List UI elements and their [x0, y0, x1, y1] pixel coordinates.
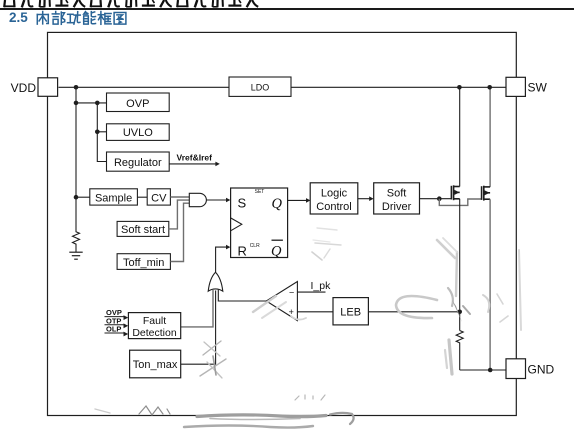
wire to GND pin [460, 369, 506, 371]
svg-text:−: − [289, 288, 294, 298]
svg-text:Fault: Fault [143, 315, 166, 327]
OR gate U3 [208, 272, 223, 291]
block Fault Detection [128, 313, 180, 339]
clipped page title text (glyph bottoms) [4, 0, 258, 7]
wire VDD bus vertical [75, 87, 77, 197]
svg-text:Soft start: Soft start [121, 224, 165, 236]
wire Logic Control to Soft Driver [358, 198, 370, 200]
wire Sample to CV [137, 196, 147, 198]
svg-text:LDO: LDO [251, 83, 270, 93]
transistor Q2 [482, 186, 491, 201]
svg-text:Q: Q [272, 196, 283, 212]
ground [69, 252, 82, 259]
block Soft Driver [374, 183, 420, 214]
transistor Q1 [451, 185, 459, 200]
block Ton_max [130, 350, 181, 378]
svg-text:Soft: Soft [387, 187, 407, 199]
wire LEB to comparator [297, 311, 333, 313]
resistor R1 (VDD bus) [73, 197, 80, 252]
svg-text:Q: Q [271, 244, 282, 260]
svg-text:Logic: Logic [321, 187, 348, 199]
wire Fault Detection to OR [181, 290, 213, 327]
wire I_pk stub [297, 291, 325, 293]
block Soft start [117, 221, 169, 236]
svg-text:CLR: CLR [250, 243, 260, 249]
svg-text:CV: CV [151, 192, 167, 204]
pin SW [506, 77, 525, 96]
clock triangle on latch [231, 218, 242, 231]
block Toff_min [117, 254, 170, 270]
svg-text:Vref&Iref: Vref&Iref [177, 153, 213, 163]
block UVLO [107, 124, 170, 141]
svg-text:OVP: OVP [126, 98, 149, 110]
pin VDD [38, 78, 58, 97]
node junction sub-bus UVLO [95, 130, 100, 135]
outer block boundary [48, 32, 517, 415]
wire Ton_max to OR [181, 291, 216, 365]
block Sample [90, 189, 138, 205]
wire Vref&Iref arrow [169, 163, 216, 165]
wire LDO to SW [291, 86, 506, 88]
svg-text:VDD: VDD [11, 81, 37, 95]
section heading glyphs 内部功能框图 [37, 12, 126, 25]
block CV [147, 189, 170, 205]
svg-text:R: R [238, 243, 247, 258]
block LEB [333, 298, 368, 325]
node gate drive junction [437, 196, 442, 201]
comparator U4 [266, 282, 297, 321]
section heading 2.5 [9, 10, 28, 25]
pin GND [506, 359, 526, 379]
wire source M1 down [459, 199, 461, 312]
node junction M2/GND [488, 368, 493, 373]
svg-text:Sample: Sample [95, 192, 132, 204]
block Regulator [107, 152, 170, 171]
svg-text:Toff_min: Toff_min [123, 257, 164, 269]
node junction bus/OVP [74, 101, 79, 106]
node junction VDD/M1 [457, 85, 462, 90]
block OVP [107, 93, 170, 112]
node junction on VDD line [74, 85, 79, 90]
node junction bus/Sample [74, 195, 79, 200]
block Logic Control [310, 183, 358, 214]
wire comparator out to OR [218, 290, 266, 301]
wire VDD to LDO [59, 86, 230, 88]
svg-text:Detection: Detection [132, 327, 177, 339]
wire bus to Sample [76, 196, 90, 198]
svg-text:S: S [238, 196, 247, 211]
wire source M2 down [489, 199, 491, 370]
wire drain M1 from VDD line [459, 87, 461, 186]
wire gate drive to Q2 [439, 199, 481, 206]
wire sub-bus vertical to Regulator [97, 103, 106, 162]
wire R input from OR gate [216, 247, 227, 272]
wire Q to Logic Control [288, 199, 307, 201]
wire bus to OVP [76, 102, 107, 104]
wire sub-bus to UVLO [97, 131, 106, 133]
block LDO [229, 77, 291, 96]
svg-text:LEB: LEB [340, 307, 361, 319]
node junction sub-bus top [95, 101, 100, 106]
wire Soft start to AND gate [169, 200, 190, 229]
wire LEB to sense node [368, 311, 459, 313]
node junction VDD/M2 [487, 85, 492, 90]
SR latch U2 [231, 188, 288, 258]
svg-text:Regulator: Regulator [114, 157, 162, 169]
wire Toff_min to AND gate [170, 203, 189, 261]
AND gate U1 [189, 193, 206, 206]
svg-text:SW: SW [528, 81, 548, 95]
wire drain M2 from VDD line [489, 87, 491, 187]
node sense junction [457, 310, 462, 315]
svg-text:GND: GND [528, 363, 555, 377]
svg-text:Driver: Driver [382, 201, 412, 213]
svg-text:OLP: OLP [106, 325, 121, 334]
wire AND output to S [207, 199, 227, 201]
svg-text:Control: Control [316, 201, 351, 213]
svg-text:Ton_max: Ton_max [133, 359, 178, 371]
wire CV to AND gate [170, 196, 189, 198]
horizontal rule [0, 8, 574, 10]
svg-text:UVLO: UVLO [123, 127, 153, 139]
svg-text:I_pk: I_pk [311, 280, 332, 292]
resistor R2 (current sense) [456, 331, 463, 371]
wire Soft Driver to gates [420, 198, 452, 200]
svg-text:SET: SET [255, 189, 265, 195]
